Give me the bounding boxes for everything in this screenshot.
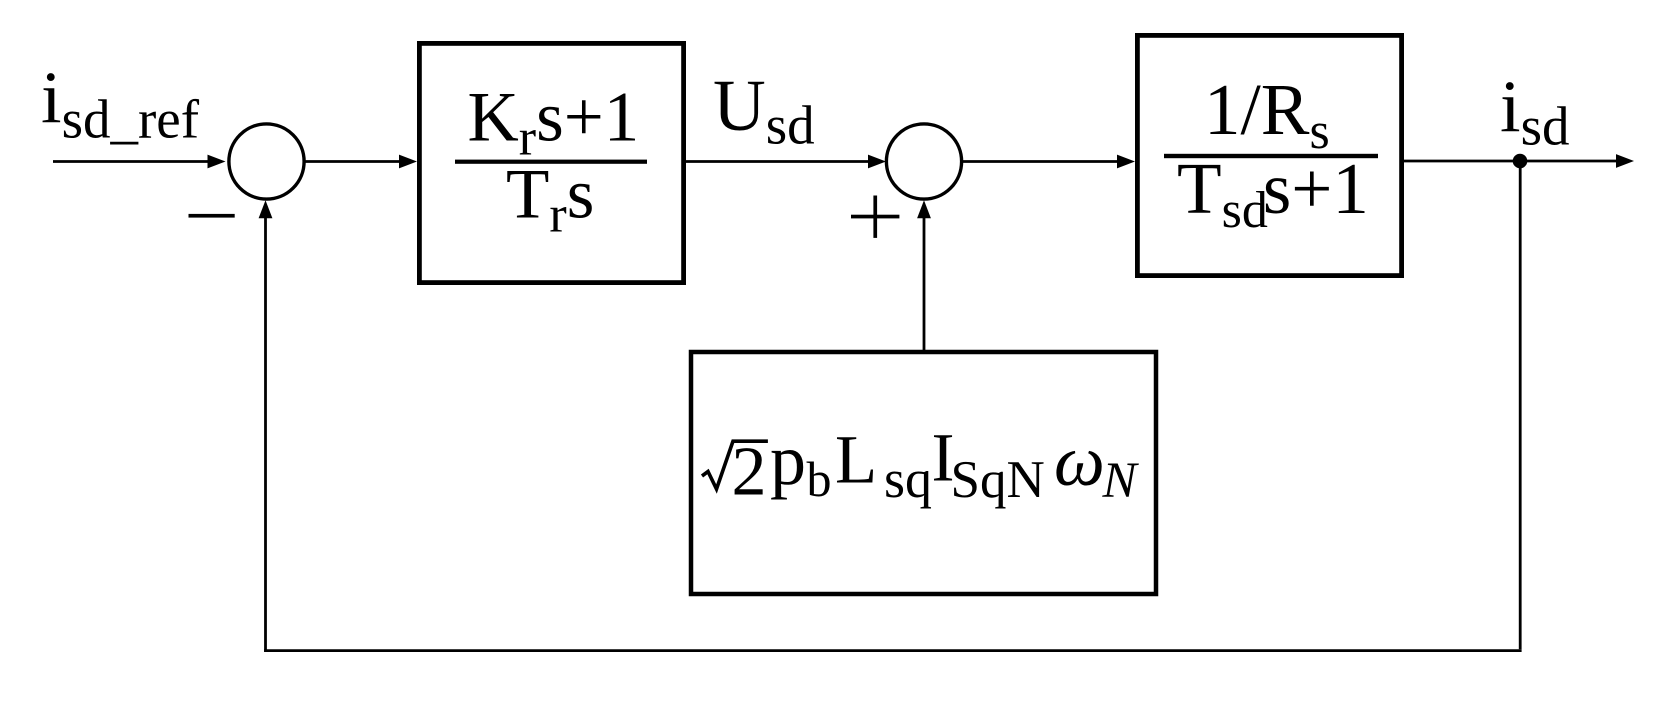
svg-text:isd: isd	[1500, 67, 1569, 157]
arrowhead into S1 left	[208, 155, 226, 169]
svg-text:sq: sq	[884, 449, 932, 509]
wire feedback down from node	[1519, 161, 1522, 649]
svg-text:ω: ω	[1054, 421, 1105, 501]
G3 subscript b	[807, 451, 832, 507]
G2 numerator 1/R_s	[1204, 69, 1330, 160]
svg-text:Usd: Usd	[713, 65, 815, 156]
svg-text:2: 2	[732, 433, 767, 510]
G2 fraction bar	[1164, 154, 1378, 158]
G1 numerator K_r s+1	[468, 79, 640, 167]
G3 term omega	[1054, 421, 1105, 501]
arrowhead into G2	[1117, 155, 1135, 169]
G3 term p	[770, 420, 806, 500]
summing junction S2	[886, 124, 961, 199]
svg-text:p: p	[770, 420, 806, 500]
svg-text:1/Rs: 1/Rs	[1204, 69, 1330, 160]
plus sign at S2	[851, 196, 899, 238]
arrowhead into S2 bottom	[917, 200, 931, 218]
node i_sd output label	[1500, 67, 1569, 157]
svg-text:Trs: Trs	[506, 156, 594, 244]
arrowhead into S2 left	[868, 155, 886, 169]
svg-text:SqN: SqN	[951, 451, 1045, 509]
wire input to summing junction S1	[53, 160, 210, 163]
node i_sd_ref input label	[41, 58, 200, 150]
wire G2 to output	[1404, 160, 1617, 163]
arrowhead into G1	[399, 155, 417, 169]
wire S2 to block G2	[962, 160, 1119, 163]
wire S1 to block G1	[304, 160, 401, 163]
block G3 decoupling feedforward	[691, 352, 1156, 594]
G3 subscript SqN	[951, 451, 1045, 509]
G3 term 2	[732, 433, 767, 510]
svg-text:b: b	[807, 451, 832, 507]
G1 denominator T_r s	[506, 156, 594, 244]
node takeoff dot	[1513, 154, 1528, 169]
wire G3 to S2	[923, 218, 926, 353]
block G2 motor stator	[1137, 35, 1401, 275]
arrowhead output end	[1616, 154, 1634, 168]
block G1 PI controller	[419, 43, 683, 282]
G3 term L	[835, 421, 877, 497]
wire feedback bottom run	[264, 649, 1522, 652]
wire feedback up into S1	[264, 218, 267, 653]
G3 subscript sq	[884, 449, 932, 509]
svg-text:L: L	[835, 421, 877, 497]
svg-text:Krs+1: Krs+1	[468, 79, 640, 167]
svg-text:N: N	[1102, 453, 1140, 509]
node U_sd label	[713, 65, 815, 156]
G1 fraction bar	[455, 160, 647, 164]
svg-text:Tsds+1: Tsds+1	[1177, 148, 1369, 239]
G3 radical sign	[702, 441, 768, 489]
G3 subscript N italic	[1102, 453, 1140, 509]
G2 denominator T_sd s+1	[1177, 148, 1369, 239]
svg-text:isd_ref: isd_ref	[41, 58, 200, 150]
minus sign at S1	[189, 214, 235, 218]
wire G1 to summing junction S2	[686, 160, 870, 163]
arrowhead into S1 bottom	[259, 200, 273, 218]
summing junction S1	[229, 124, 304, 199]
G3 term I	[932, 420, 955, 496]
